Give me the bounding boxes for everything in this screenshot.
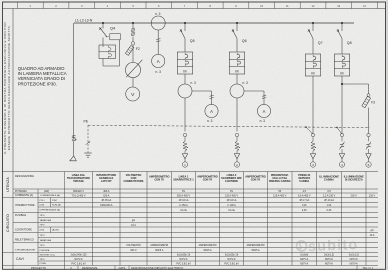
svg-text:6,6 A-400 V: 6,6 A-400 V bbox=[298, 194, 311, 197]
svg-text:Q4: Q4 bbox=[110, 25, 116, 30]
svg-text:CV: CV bbox=[182, 190, 186, 193]
circuit breaker Q5 with trip unit bbox=[177, 22, 194, 84]
svg-text:FUSIBILE: FUSIBILE bbox=[15, 214, 26, 217]
svg-text:M: M bbox=[235, 69, 238, 73]
svg-text:TARATURA: TARATURA bbox=[40, 239, 52, 242]
ammeter A feeder 1 bbox=[205, 104, 218, 123]
svg-text:LATO BT: LATO BT bbox=[101, 179, 112, 183]
current transformer on bus n.3 bbox=[151, 12, 165, 30]
svg-text:TIPO: TIPO bbox=[40, 225, 45, 227]
table grid bbox=[3, 172, 379, 270]
svg-text:380/220 V: 380/220 V bbox=[73, 190, 84, 193]
svg-text:Q5: Q5 bbox=[190, 39, 195, 43]
svg-text:CORRENTE (A): CORRENTE (A) bbox=[15, 194, 33, 197]
svg-text:n. 3: n. 3 bbox=[243, 81, 249, 85]
junction to lamp branch bbox=[341, 83, 369, 85]
svg-text:600/5 A: 600/5 A bbox=[155, 249, 164, 252]
svg-text:4P-35 kA: 4P-35 kA bbox=[101, 199, 111, 202]
terminal screw hatching on voltmeter branch bbox=[131, 28, 135, 42]
svg-text:A: A bbox=[263, 109, 266, 114]
vertical label CIRCUITO bbox=[6, 214, 10, 232]
svg-text:600 V: 600 V bbox=[130, 249, 137, 252]
PE protective earth dashed bus bbox=[88, 125, 370, 127]
svg-text:2P-10 kA: 2P-10 kA bbox=[324, 199, 334, 202]
svg-text:2,2 A-230 V: 2,2 A-230 V bbox=[323, 194, 336, 197]
svg-text:UA 3a: UA 3a bbox=[228, 209, 235, 212]
svg-text:POLI: POLI bbox=[40, 200, 45, 202]
svg-text:TIPO: TIPO bbox=[40, 235, 45, 237]
svg-text:0,25: 0,25 bbox=[327, 209, 332, 212]
svg-text:AMPEROMETRI: AMPEROMETRI bbox=[199, 244, 217, 247]
svg-text:630 A: 630 A bbox=[103, 194, 110, 197]
svg-text:3x(3x35)+16: 3x(3x35)+16 bbox=[177, 254, 191, 257]
voltmeter V bbox=[126, 87, 140, 101]
outgoing feeder 1 cable arrow tag bbox=[182, 133, 188, 167]
svg-text:400 A: 400 A bbox=[103, 190, 110, 193]
vertical label UTENZA bbox=[6, 177, 10, 192]
svg-text:N07V-K: N07V-K bbox=[350, 262, 359, 265]
current transformer n.3 on feeder 1 bbox=[178, 81, 196, 132]
svg-text:DIFFERENZIALE (A): DIFFERENZIALE (A) bbox=[40, 209, 61, 212]
svg-text:N07V-K: N07V-K bbox=[325, 258, 334, 261]
svg-text:N07V-K: N07V-K bbox=[350, 258, 359, 261]
svg-text:X: X bbox=[70, 266, 72, 270]
PE tap to feeder 4 bbox=[336, 127, 342, 135]
svg-text:4P-10 kA: 4P-10 kA bbox=[179, 199, 189, 202]
svg-text:PVC 0,6/1 kV: PVC 0,6/1 kV bbox=[176, 262, 191, 265]
svg-text:(kW): (kW) bbox=[44, 190, 49, 193]
svg-text:PORTATA: PORTATA bbox=[40, 249, 50, 252]
outgoing feeder 3 cable arrow tag bbox=[310, 133, 316, 167]
svg-text:UA 3a: UA 3a bbox=[180, 209, 187, 212]
svg-text:TGL Q.400 V: TGL Q.400 V bbox=[72, 194, 86, 197]
svg-text:N07V-K: N07V-K bbox=[227, 258, 236, 261]
svg-text:(LM): (LM) bbox=[40, 205, 45, 207]
wire CT1 to ammeter branch bbox=[192, 91, 214, 105]
svg-text:C 100 A: C 100 A bbox=[227, 204, 236, 207]
svg-text:n. 3: n. 3 bbox=[207, 119, 213, 123]
svg-text:A: A bbox=[157, 59, 160, 64]
svg-text:AMPEROMETRI: AMPEROMETRI bbox=[150, 244, 168, 247]
svg-text:CIRCUITO: CIRCUITO bbox=[6, 214, 10, 232]
svg-text:350 A-400 V: 350 A-400 V bbox=[177, 194, 191, 197]
svg-text:N07V-K: N07V-K bbox=[300, 262, 309, 265]
svg-text:Q6: Q6 bbox=[242, 39, 247, 43]
svg-text:M: M bbox=[311, 71, 314, 75]
fuse F3 tilted cartridge bbox=[362, 84, 375, 134]
svg-text:(LM): (LM) bbox=[40, 230, 45, 232]
svg-text:subito: subito bbox=[308, 237, 359, 255]
svg-text:POSA: POSA bbox=[40, 262, 47, 265]
svg-text:A: A bbox=[210, 109, 213, 114]
small connector circle on voltmeter branch bbox=[131, 42, 134, 45]
svg-text:VOLTMETRO: VOLTMETRO bbox=[126, 244, 141, 247]
svg-text:13: 13 bbox=[337, 4, 340, 8]
svg-text:COMMERCIALE (A): COMMERCIALE (A) bbox=[40, 194, 60, 197]
fuse F2 tilted cartridge bbox=[125, 45, 140, 62]
note QUADRO AD ARMADIO text block bbox=[18, 66, 67, 87]
circuit breaker Q7 with trip unit bbox=[305, 22, 322, 133]
svg-text:125 A-400 V: 125 A-400 V bbox=[273, 194, 287, 197]
top reference band bbox=[3, 2, 386, 9]
svg-text:PVC 0,6/1 kV: PVC 0,6/1 kV bbox=[71, 262, 86, 265]
svg-text:AMPEROMETRI: AMPEROMETRI bbox=[247, 244, 265, 247]
table column headers bbox=[67, 173, 364, 183]
title strip PROGETTO bbox=[31, 266, 374, 270]
svg-text:125 A-400 V: 125 A-400 V bbox=[225, 194, 239, 197]
earth electrode triangle ground bbox=[70, 156, 77, 161]
svg-text:NOM.(A): NOM.(A) bbox=[52, 204, 61, 207]
svg-text:TIPO: TIPO bbox=[40, 259, 45, 261]
svg-text:TRIFASE: TRIFASE bbox=[73, 179, 84, 183]
svg-text:PROTEZIONE IP30.: PROTEZIONE IP30. bbox=[18, 81, 57, 86]
svg-text:TIPO: TIPO bbox=[40, 245, 45, 247]
watermark subito bbox=[296, 237, 358, 256]
svg-text:M: M bbox=[340, 71, 343, 75]
svg-text:600/5 A: 600/5 A bbox=[251, 249, 260, 252]
svg-text:DATA: DATA bbox=[119, 266, 126, 270]
svg-text:CON TA: CON TA bbox=[251, 177, 261, 181]
svg-text:TAV. N. 1: TAV. N. 1 bbox=[362, 266, 374, 270]
wire commutator to voltmeter bbox=[132, 78, 134, 87]
svg-text:C16: C16 bbox=[302, 204, 307, 207]
svg-text:10 A: 10 A bbox=[370, 234, 375, 237]
outgoing feeder 2 cable arrow tag bbox=[234, 133, 240, 167]
svg-text:600/5 A: 600/5 A bbox=[203, 249, 212, 252]
svg-text:C10: C10 bbox=[327, 204, 332, 207]
outgoing feeder 4 cable arrow tag bbox=[339, 133, 344, 167]
bus label L1-L2-L3-N bbox=[75, 18, 93, 22]
svg-text:CAVI: CAVI bbox=[16, 257, 24, 261]
table row labels bbox=[15, 175, 61, 265]
svg-text:P.INT: P.INT bbox=[52, 200, 58, 202]
svg-text:N07V-K: N07V-K bbox=[325, 262, 334, 265]
svg-text:N07V-K: N07V-K bbox=[300, 258, 309, 261]
svg-text:ESSERE RIPRODOTTO SENZA REGOLA: ESSERE RIPRODOTTO SENZA REGOLARE AUTORIZ… bbox=[7, 26, 11, 150]
svg-text:4P-10 kA: 4P-10 kA bbox=[227, 199, 237, 202]
wire voltmeter branch drop bbox=[132, 22, 134, 28]
svg-text:INTERRUTTORE: INTERRUTTORE bbox=[15, 204, 35, 207]
circuit breaker Q8 with trip unit bbox=[334, 22, 351, 133]
svg-text:RELE TERMICO: RELE TERMICO bbox=[15, 239, 34, 242]
voltmeter commutator selector switch bbox=[125, 60, 142, 78]
svg-text:5x(3x6): 5x(3x6) bbox=[300, 254, 308, 257]
svg-text:n. 3: n. 3 bbox=[156, 70, 162, 74]
svg-text:TARATURA: TARATURA bbox=[40, 219, 52, 222]
PE tap to feeder 3 bbox=[305, 126, 313, 134]
svg-text:SEZIONE mmq: SEZIONE mmq bbox=[40, 255, 56, 257]
svg-text:F3: F3 bbox=[371, 101, 375, 105]
svg-text:PE: PE bbox=[84, 119, 89, 123]
svg-text:(A,kW): (A,kW) bbox=[52, 229, 59, 232]
svg-text:11: 11 bbox=[286, 4, 289, 8]
svg-text:PROGETTO: PROGETTO bbox=[31, 266, 46, 270]
svg-text:DENOMINAZIONE IMPIANTO ELETTRI: DENOMINAZIONE IMPIANTO ELETTRICO bbox=[131, 266, 183, 270]
svg-text:n. 3: n. 3 bbox=[191, 81, 197, 85]
svg-text:CABINA: CABINA bbox=[299, 179, 309, 183]
svg-text:C 250 A: C 250 A bbox=[179, 204, 188, 207]
PE ground bars symbol bbox=[84, 153, 91, 157]
svg-text:DESIGNAZIONE: DESIGNAZIONE bbox=[15, 175, 34, 178]
svg-text:CV: CV bbox=[230, 190, 234, 193]
circuit breaker Q4 switch blade bbox=[99, 22, 116, 45]
svg-text:n. 3: n. 3 bbox=[260, 119, 266, 123]
node PE label bbox=[84, 119, 89, 123]
svg-text:CONTATTORE: CONTATTORE bbox=[15, 229, 32, 232]
svg-text:CABINA: CABINA bbox=[324, 177, 334, 181]
svg-text:Q8: Q8 bbox=[347, 41, 352, 45]
svg-text:230 V: 230 V bbox=[369, 194, 376, 197]
svg-text:TIPO: TIPO bbox=[40, 215, 45, 217]
svg-text:F2: F2 bbox=[136, 47, 140, 51]
surge arrester tick stack on left drop bbox=[72, 135, 77, 155]
svg-text:3x(3x1,5): 3x(3x1,5) bbox=[349, 254, 359, 257]
wire CT to ammeter with link marks bbox=[156, 30, 160, 55]
svg-text:gG: gG bbox=[132, 219, 135, 222]
svg-text:10 A: 10 A bbox=[131, 224, 136, 227]
Q4 trip unit box with thermal-magnetic elements bbox=[99, 45, 116, 59]
Q4 shunt release box bbox=[106, 34, 121, 40]
svg-text:L1-L2-L3-N: L1-L2-L3-N bbox=[75, 18, 93, 22]
ammeter A feeder 2 bbox=[257, 104, 270, 123]
svg-text:CANTIERE: CANTIERE bbox=[225, 179, 238, 183]
svg-text:3x(3x240)+120: 3x(3x240)+120 bbox=[70, 254, 87, 257]
svg-text:N07V-K: N07V-K bbox=[74, 258, 83, 261]
svg-text:RISERVA CABINA: RISERVA CABINA bbox=[269, 179, 291, 183]
svg-text:230 V: 230 V bbox=[351, 194, 358, 197]
svg-text:PVC 0,6/1 kV: PVC 0,6/1 kV bbox=[224, 262, 239, 265]
outgoing feeder 5 cable arrow tag bbox=[366, 133, 371, 167]
svg-text:gG: gG bbox=[370, 229, 373, 232]
svg-text:4P-17 kA: 4P-17 kA bbox=[299, 199, 309, 202]
main bus wire bbox=[74, 22, 354, 24]
incoming line from transformer (left drop) bbox=[73, 23, 75, 139]
svg-text:RESIDENZE: RESIDENZE bbox=[82, 266, 98, 270]
table data values bbox=[70, 190, 375, 265]
svg-text:M: M bbox=[183, 69, 186, 73]
left margin strip with rotated property note bbox=[3, 9, 13, 172]
svg-text:CON TA: CON TA bbox=[203, 177, 213, 181]
svg-text:Q7: Q7 bbox=[318, 41, 323, 45]
svg-text:UTENZA: UTENZA bbox=[6, 177, 10, 192]
current transformer n.3 on feeder 2 bbox=[230, 81, 248, 132]
svg-text:n. 3: n. 3 bbox=[155, 12, 161, 16]
svg-text:10: 10 bbox=[260, 4, 263, 8]
svg-text:N07V-K: N07V-K bbox=[179, 258, 188, 261]
svg-text:CON TA: CON TA bbox=[154, 177, 164, 181]
svg-text:3x(3x25)+16: 3x(3x25)+16 bbox=[225, 254, 239, 257]
svg-text:C500/400 A: C500/400 A bbox=[100, 204, 113, 207]
svg-text:0,25: 0,25 bbox=[302, 209, 307, 212]
svg-text:12: 12 bbox=[312, 4, 315, 8]
Q4 output loop wire bbox=[103, 39, 120, 66]
svg-text:DI SICUREZZA: DI SICUREZZA bbox=[345, 177, 363, 181]
PE down conductor with blade bbox=[86, 125, 91, 152]
svg-text:SBARRATRICE 1: SBARRATRICE 1 bbox=[173, 177, 194, 181]
circuit breaker Q6 with trip unit bbox=[229, 22, 246, 84]
svg-text:COMMUTATORE: COMMUTATORE bbox=[124, 179, 144, 183]
svg-text:14: 14 bbox=[363, 4, 366, 8]
ammeter A main bbox=[152, 54, 165, 73]
svg-text:POTENZA: POTENZA bbox=[15, 190, 27, 193]
svg-text:STRUMENTAZIONE: STRUMENTAZIONE bbox=[15, 249, 36, 252]
wire CT2 to ammeter branch bbox=[244, 91, 266, 105]
